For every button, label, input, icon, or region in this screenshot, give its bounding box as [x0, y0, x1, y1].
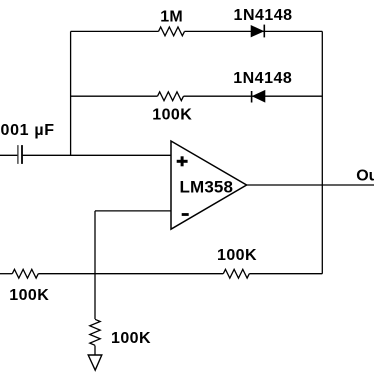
wire: mid vertical from - input down to R5 [94, 211, 96, 319]
wire: input from left edge to capacitor C1 [0, 154, 18, 156]
wire: bottom rail left edge to R3 [0, 273, 12, 275]
wire: second feedback left segment [71, 95, 158, 97]
resistor R1 1M [159, 27, 185, 36]
svg-text:100K: 100K [152, 107, 192, 124]
wire: bottom rail R3 to R4 [38, 273, 223, 275]
diode D2 1N4148 (cathode left, pointing left) [252, 90, 265, 102]
svg-text:Out: Out [356, 167, 374, 184]
wire: top feedback left segment [71, 30, 159, 32]
op-amp U1 LM358 triangle [171, 141, 247, 229]
resistor R5 100K (vertical to ground) [90, 319, 100, 345]
wire: second feedback right segment [184, 95, 323, 97]
capacitor C1 plates [18, 145, 22, 164]
resistor R2 100K [158, 92, 184, 101]
ground symbol [88, 355, 102, 370]
wire: R5 to ground symbol [94, 346, 96, 356]
wire: op-amp - input to mid vertical [95, 210, 171, 212]
svg-text:100K: 100K [111, 330, 151, 347]
resistor R4 100K (bottom right) [223, 269, 249, 278]
svg-text:LM358: LM358 [180, 178, 234, 197]
svg-text:1M: 1M [160, 9, 183, 26]
wire: right vertical bus (feedback to output) [321, 31, 323, 273]
wire: top feedback right segment [185, 30, 323, 32]
wire: bottom rail R4 to right bus corner [249, 273, 322, 275]
svg-text:1N4148: 1N4148 [234, 7, 293, 24]
diode D1 1N4148 (anode left, pointing right) [251, 25, 264, 38]
svg-text:100K: 100K [9, 287, 49, 304]
svg-text:001 µF: 001 µF [1, 122, 55, 139]
svg-text:1N4148: 1N4148 [233, 70, 292, 87]
wire: left feedback vertical (node at + input) [70, 31, 72, 155]
wire: capacitor C1 to op-amp + input [23, 154, 171, 156]
wire: op-amp output to right edge [247, 184, 374, 186]
svg-text:100K: 100K [217, 247, 257, 264]
op-amp - input symbol [182, 213, 189, 216]
resistor R3 100K (bottom left) [12, 269, 38, 278]
op-amp + input symbol [177, 156, 188, 166]
